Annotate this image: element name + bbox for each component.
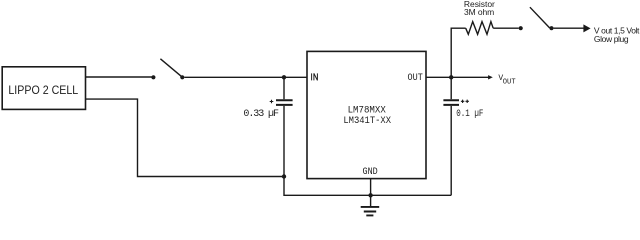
switch S2 contact right	[549, 26, 553, 30]
node C junction	[449, 75, 453, 79]
capacitor C1 polarity +	[270, 100, 274, 104]
wire OUT pin to node C	[426, 76, 451, 78]
regulator U1 body	[307, 51, 426, 178]
wire switch to node A	[184, 76, 284, 78]
arrow glow plug	[583, 24, 590, 32]
svg-text:LM341T-XX: LM341T-XX	[343, 116, 391, 127]
capacitor C2 polarity ++	[461, 100, 469, 103]
svg-text:0.1 µF: 0.1 µF	[456, 109, 483, 120]
switch S2 contact left	[519, 26, 523, 30]
switch S1 contact right	[180, 75, 184, 79]
ground symbol	[370, 195, 372, 206]
svg-text:LIPPO 2 CELL: LIPPO 2 CELL	[8, 83, 78, 97]
svg-text:LM78MXX: LM78MXX	[348, 106, 386, 117]
wire battery- down and across	[86, 99, 285, 176]
svg-text:GND: GND	[363, 167, 378, 178]
capacitor C2 plates	[443, 100, 459, 105]
svg-text:Glow plug: Glow plug	[594, 34, 629, 44]
switch S1 blade	[160, 59, 182, 77]
node B junction	[282, 174, 286, 178]
wire node A to IN pin	[284, 76, 307, 78]
battery B1 LIPPO 2 CELL	[2, 67, 85, 110]
wire node C to Vout arrow	[451, 76, 488, 78]
capacitor C1 lead top	[283, 77, 285, 99]
svg-text:3M ohm: 3M ohm	[464, 7, 494, 17]
resistor R1 3M ohm	[466, 22, 494, 35]
wire resistor to switch S2	[493, 27, 518, 29]
switch S1 contact left	[151, 75, 155, 79]
capacitor C2 lead bottom	[450, 106, 452, 195]
pin label IN	[312, 73, 318, 80]
node A junction	[282, 75, 286, 79]
svg-text:0.33 µF: 0.33 µF	[243, 109, 279, 120]
wire node B to ground rail	[284, 177, 451, 196]
wire battery+ to switch	[86, 76, 152, 78]
capacitor C2 lead top	[450, 77, 452, 99]
svg-text:OUT: OUT	[503, 78, 516, 86]
switch S2 blade	[530, 7, 550, 28]
capacitor C1 plates	[276, 100, 293, 105]
svg-text:OUT: OUT	[408, 73, 423, 84]
wire switch S2 to glow plug arrow	[554, 27, 584, 29]
node GND junction	[368, 193, 372, 197]
capacitor C1 lead bottom	[283, 106, 285, 177]
arrow Vout	[488, 75, 493, 79]
wire node C up to resistor	[451, 28, 466, 77]
wire GND pin down	[370, 179, 372, 196]
